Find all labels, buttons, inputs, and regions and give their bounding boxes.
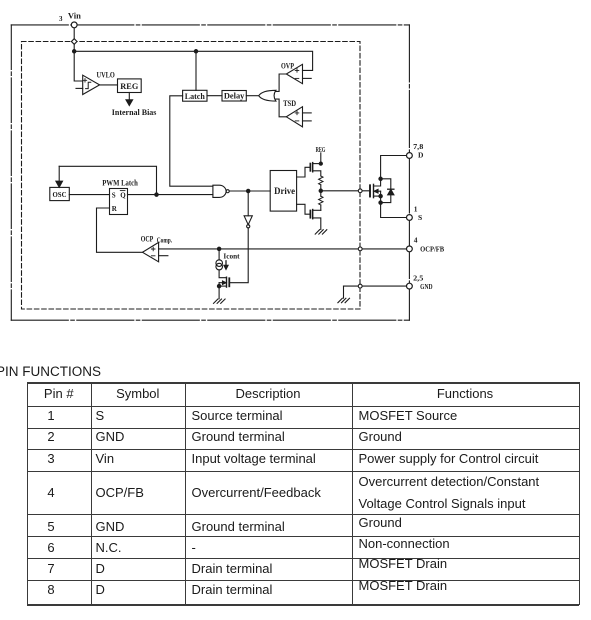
wire Drive to upper FET gate (297, 167, 310, 177)
svg-text:7,8: 7,8 (413, 142, 423, 151)
pin 1 S terminal (407, 215, 413, 221)
svg-text:S: S (112, 191, 116, 199)
table row pin 2 (36, 430, 66, 444)
wire gate line to power MOSFET (321, 190, 370, 192)
NAND gate U-gate (213, 185, 226, 197)
wire PWM latch R input from OCP comparator (97, 208, 143, 252)
op-amp OVP comparator (286, 64, 302, 83)
wire Vin vertical from pin 3 (74, 28, 83, 81)
ground symbol GND net (338, 298, 342, 302)
TSD plus input stub (303, 112, 312, 114)
svg-text:REG: REG (120, 81, 138, 91)
wire PWM latch Q output to NAND (128, 194, 213, 196)
PWM Latch box (110, 189, 128, 215)
table row pin 5 (36, 520, 66, 534)
table row pin 7 (36, 562, 66, 576)
resistor upper gate resistor (319, 176, 323, 185)
transistor lower driver FET (312, 210, 314, 219)
OVP minus input stub (303, 77, 312, 79)
wire OR lower input from TSD (275, 99, 286, 117)
svg-text:OCP: OCP (141, 234, 154, 243)
block Latch (183, 90, 207, 101)
OR gate (mirrored, output left) (259, 90, 276, 101)
table row pin 4 (36, 486, 66, 500)
wire resistor to gate node (320, 185, 322, 196)
wire OSC to PWM latch S input (69, 194, 109, 196)
wire source to pin S (381, 203, 407, 218)
ground under sense FET (214, 299, 218, 303)
wire GND pin line (344, 285, 407, 287)
svg-text:PWM Latch: PWM Latch (102, 179, 138, 188)
wire drain to pin D (381, 156, 407, 179)
svg-text:Delay: Delay (224, 92, 245, 101)
oscillator OSC box (50, 187, 70, 200)
ground under lower driver FET (315, 230, 319, 234)
crossing circle gate line (358, 189, 362, 193)
node junction Icont tap (217, 247, 220, 250)
table header row (27, 387, 92, 401)
wire Drive to lower FET gate (297, 204, 310, 214)
body diode of power MOSFET (381, 179, 391, 203)
control-circuit dashed boundary (22, 42, 361, 310)
Icont arrow down (225, 261, 227, 266)
crossing circle OCP/FB line (358, 247, 362, 251)
table row pin 3 (36, 452, 66, 466)
op-amp TSD comparator (286, 107, 302, 127)
table row pin 8 (36, 583, 66, 597)
svg-text:1: 1 (414, 204, 418, 213)
wire Latch output down to NAND input (170, 96, 213, 186)
regulator REG box (118, 79, 142, 93)
svg-text:S: S (418, 213, 422, 222)
svg-text:REG: REG (316, 147, 326, 154)
driver block Drive (270, 171, 296, 212)
table row pin 6 (36, 541, 66, 555)
op-amp OCP comparator (143, 242, 159, 261)
UVLO minus input stub (76, 87, 83, 89)
wire down to inverter (247, 191, 249, 216)
op-amp UVLO comparator (83, 75, 100, 94)
IC package outline (chain line) (11, 25, 409, 320)
node junction on PWM latch output (155, 193, 158, 196)
pin table grid (27, 382, 579, 384)
svg-text:2,5: 2,5 (413, 274, 423, 283)
node junction NAND output (247, 189, 250, 192)
pin 4 OCP/FB terminal (407, 246, 413, 252)
svg-text:R: R (112, 205, 118, 213)
svg-text:OVP: OVP (281, 61, 294, 70)
wire rail to Latch top (195, 51, 197, 90)
svg-text:Drive: Drive (274, 186, 295, 196)
svg-text:Latch: Latch (185, 92, 206, 101)
crossing circle GND line (358, 284, 362, 288)
svg-text:3: 3 (59, 15, 63, 23)
svg-text:OSC: OSC (53, 190, 67, 199)
svg-text:Comp.: Comp. (157, 237, 173, 244)
wire NAND output to Drive (229, 190, 270, 192)
svg-text:D: D (418, 151, 424, 160)
svg-text:OCP/FB: OCP/FB (420, 244, 444, 253)
wire OCP/FB main line (159, 248, 407, 250)
UVLO hysteresis mark (86, 82, 91, 88)
transistor power MOSFET Q1 (369, 185, 371, 196)
resistor lower gate resistor (319, 196, 323, 205)
wire inverter output to sense FET gate (230, 228, 248, 283)
svg-text:UVLO: UVLO (97, 70, 115, 79)
svg-text:Internal Bias: Internal Bias (112, 108, 157, 117)
svg-text:Vin: Vin (68, 11, 82, 20)
svg-text:GND: GND (420, 282, 433, 291)
wire Delay to OR gate (246, 95, 258, 97)
arrow into OSC (58, 166, 60, 181)
svg-text:Q: Q (120, 191, 126, 199)
svg-text:TSD: TSD (283, 99, 296, 108)
wire Latch to Delay (207, 95, 222, 97)
inverter (pointing down) (244, 216, 252, 225)
transistor upper driver FET (312, 163, 314, 172)
svg-text:4: 4 (414, 236, 418, 245)
pin 3 Vin terminal circle (71, 22, 77, 28)
pin 7,8 D terminal (407, 153, 413, 159)
table row pin 1 (36, 409, 66, 423)
table row 4 functions two lines (359, 475, 540, 489)
OCP minus input stub (159, 255, 168, 257)
wire REG supply to upper driver FET (320, 153, 322, 164)
current source Icont (double circle) (216, 260, 223, 267)
wire current source to sense FET drain (219, 270, 226, 278)
wire oscillator sync from PWM latch output (59, 166, 156, 194)
transistor sense FET (gate right) (226, 277, 228, 287)
svg-text:Icont: Icont (223, 252, 240, 261)
block Delay (222, 91, 246, 102)
arrow REG to Internal Bias (128, 93, 130, 100)
TSD minus input stub (303, 120, 312, 122)
wire UVLO output to REG (100, 84, 118, 86)
node junction Vin rail (73, 50, 76, 53)
wire Vin internal rail (74, 51, 312, 70)
node junction rail/Latch (194, 50, 197, 53)
OVP plus input line (from Vin rail) (295, 69, 297, 71)
pin 2,5 GND terminal (407, 283, 413, 289)
wire OR upper input from OVP (275, 74, 286, 91)
node gate drive output (319, 189, 322, 192)
heading PIN FUNCTIONS (0, 365, 101, 379)
boundary crossing diamond on Vin wire (71, 39, 77, 45)
wire to current source (218, 249, 220, 260)
